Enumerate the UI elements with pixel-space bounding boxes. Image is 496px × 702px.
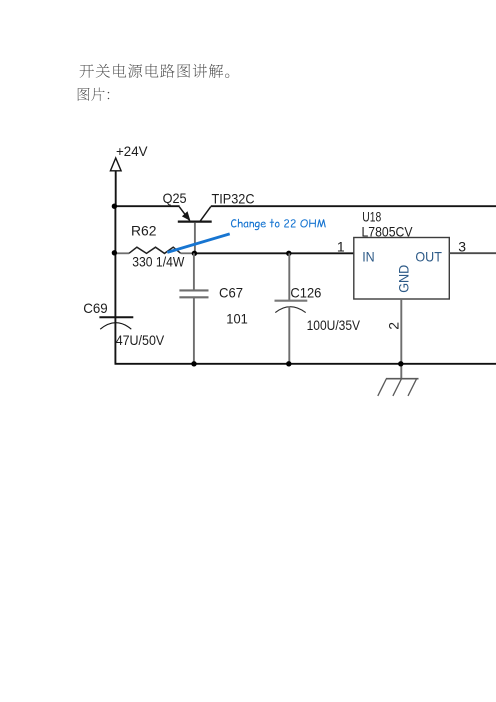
pin 1 label <box>337 239 345 255</box>
svg-text:100U/35V: 100U/35V <box>307 317 361 333</box>
label L7805CV <box>362 223 414 239</box>
transistor Q25 <box>178 207 212 254</box>
label 100U/35V <box>307 317 361 333</box>
label U18 <box>362 208 381 224</box>
svg-text:Q25: Q25 <box>163 190 187 206</box>
node junction GND/bottom <box>398 361 403 366</box>
svg-text:IN: IN <box>362 248 375 264</box>
node junction C126 <box>286 251 291 256</box>
pin 3 wire OUT <box>449 252 496 254</box>
label 47U/50V <box>116 332 165 348</box>
node junction rail/R62 <box>112 250 117 255</box>
label 330 1/4W <box>132 254 185 270</box>
svg-text:+24V: +24V <box>116 143 148 159</box>
label C126 <box>290 285 321 301</box>
wire top right segment <box>211 205 496 207</box>
pin 3 label <box>458 239 466 255</box>
svg-text:GND: GND <box>396 265 412 293</box>
heading text line 1 <box>80 64 230 78</box>
annotation arrow line <box>167 234 229 253</box>
svg-text:101: 101 <box>226 310 248 326</box>
node junction C126/bottom <box>286 361 291 366</box>
annotation text Change to 22 OHM <box>231 219 326 230</box>
label C69 <box>83 300 108 316</box>
svg-text:C126: C126 <box>290 285 321 301</box>
svg-text:TIP32C: TIP32C <box>212 191 255 207</box>
net label +24V <box>116 143 148 159</box>
heading text line 2 <box>78 88 109 101</box>
capacitor C67 <box>179 253 208 364</box>
svg-text:R62: R62 <box>131 223 157 239</box>
label Q25 <box>163 190 187 206</box>
capacitor C69 <box>99 317 133 363</box>
wire left rail <box>114 206 116 317</box>
wire top left segment <box>114 205 180 207</box>
svg-text:3: 3 <box>458 239 466 255</box>
wire bottom ground rail <box>115 363 496 365</box>
power symbol +24V <box>110 158 121 206</box>
capacitor C126 <box>275 253 308 364</box>
IC U18 regulator box <box>354 238 450 300</box>
ground symbol <box>378 379 419 396</box>
svg-text:C67: C67 <box>219 284 243 300</box>
svg-text:47U/50V: 47U/50V <box>116 332 165 348</box>
pin 2 label <box>385 322 401 330</box>
node junction C67/bottom <box>191 361 196 366</box>
label TIP32C <box>212 191 255 207</box>
pin 2 wire GND <box>400 299 402 379</box>
label C67 <box>219 284 243 300</box>
svg-text:1: 1 <box>337 239 345 255</box>
svg-text:L7805CV: L7805CV <box>362 223 414 239</box>
wire base node to U18 pin1 <box>194 252 353 254</box>
node junction base/C67 <box>192 251 197 256</box>
label 101 <box>226 310 248 326</box>
resistor R62 <box>115 247 195 253</box>
svg-text:OUT: OUT <box>415 248 442 264</box>
node junction rail/top wire <box>112 204 117 209</box>
svg-text:C69: C69 <box>83 300 108 316</box>
label R62 <box>131 223 157 239</box>
svg-text:2: 2 <box>385 322 401 330</box>
svg-text:330 1/4W: 330 1/4W <box>132 254 185 270</box>
svg-text:U18: U18 <box>362 208 381 224</box>
